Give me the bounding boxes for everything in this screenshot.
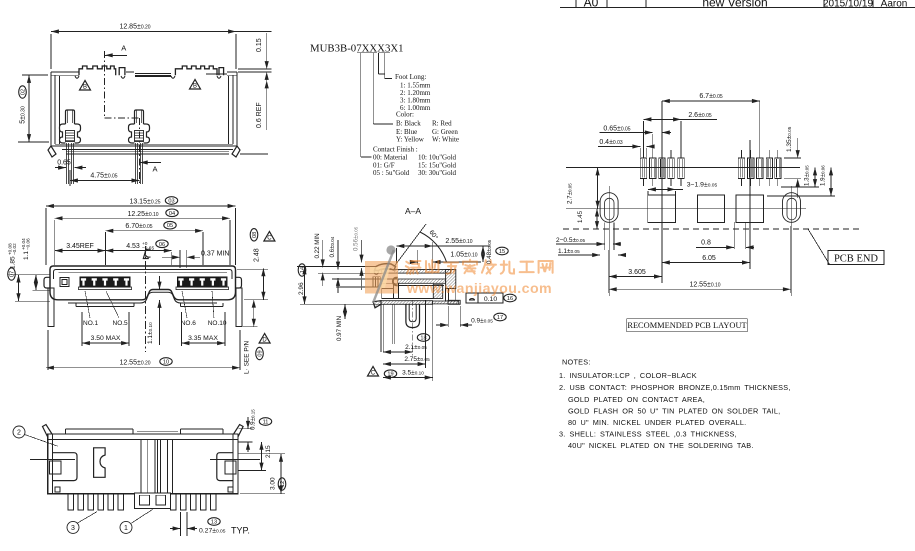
svg-text:0.9±0.15: 0.9±0.15 — [250, 409, 257, 430]
svg-text:2.55±0.10: 2.55±0.10 — [445, 238, 472, 245]
front view NO. labels — [83, 291, 227, 327]
svg-text:B: B — [193, 84, 197, 90]
pcb dim 3.605 — [609, 250, 662, 293]
pcb dim 2.6 — [644, 112, 718, 158]
svg-text:07: 07 — [10, 271, 16, 277]
pcb dim 1.3 — [781, 165, 819, 187]
section A-A shell profile — [373, 264, 460, 352]
section A-A dim 2.55 — [396, 238, 490, 269]
bottom view dim 0.9±0.15 — [239, 409, 272, 452]
front view dim 3.35 MAX — [182, 312, 226, 346]
svg-text:2.6±0.05: 2.6±0.05 — [688, 112, 712, 119]
svg-text:0.56±0.05: 0.56±0.05 — [353, 226, 360, 251]
svg-text:2.96: 2.96 — [298, 282, 305, 295]
svg-text:03: 03 — [168, 199, 174, 205]
top view dim 0.6 REF right — [240, 72, 268, 154]
svg-text:04: 04 — [169, 211, 175, 217]
section A-A dim 0.9 foot — [436, 306, 506, 327]
svg-text:Color:: Color: — [396, 111, 414, 119]
svg-text:D: D — [262, 338, 267, 344]
svg-text:1.1±0.10: 1.1±0.10 — [147, 322, 154, 344]
svg-text:17: 17 — [497, 315, 503, 321]
svg-text:−0.06: −0.06 — [26, 238, 31, 250]
svg-text:A: A — [152, 165, 157, 174]
front view housing block left — [75, 303, 77, 307]
front view dim 13.15 — [46, 197, 236, 265]
svg-text:15: 15u"Gold: 15: 15u"Gold — [418, 161, 457, 169]
svg-text:A–A: A–A — [405, 206, 421, 216]
svg-text:NO.5: NO.5 — [113, 320, 129, 327]
front view shell outline — [44, 266, 242, 303]
bottom view dim 2.15 — [239, 442, 273, 471]
section A-A 60 deg arc — [395, 224, 447, 266]
section A-A dims 2.1 / 2.75 / 3.5 — [368, 300, 433, 381]
pcb dim 2.7 — [567, 168, 598, 209]
svg-text:12.85±0.20: 12.85±0.20 — [119, 24, 150, 31]
pcb dim 6.05 — [662, 255, 750, 263]
top view mounting peg left — [66, 110, 75, 124]
front view dim 6.70 — [105, 221, 203, 265]
svg-text:1.3±0.05: 1.3±0.05 — [804, 165, 811, 186]
top view dim 0.15 right — [238, 33, 272, 88]
pcb dim 12.55 — [609, 226, 791, 293]
section A-A dim 0.48 — [483, 239, 508, 264]
section A-A dim 1.05 — [410, 250, 481, 265]
svg-text:0.4±0.03: 0.4±0.03 — [599, 139, 623, 146]
svg-text:14: 14 — [300, 267, 306, 273]
svg-text:2. USB CONTACT: PHOSPHOR BRONZ: 2. USB CONTACT: PHOSPHOR BRONZE,0.15mm T… — [559, 383, 791, 392]
svg-text:1: 1 — [124, 525, 128, 532]
svg-text:B: B — [83, 85, 87, 91]
front view centerline — [144, 246, 146, 352]
svg-text:12.55±0.20: 12.55±0.20 — [119, 360, 150, 367]
svg-text:0.65: 0.65 — [57, 160, 71, 167]
pcb dim 2-0.5 — [556, 237, 621, 244]
svg-text:A0: A0 — [584, 0, 599, 10]
svg-text:3−1.9±0.05: 3−1.9±0.05 — [687, 182, 718, 189]
svg-text:−0.02: −0.02 — [12, 243, 17, 255]
svg-text:6.70±0.05: 6.70±0.05 — [125, 223, 152, 230]
svg-text:R: Red: R: Red — [432, 120, 452, 128]
svg-text:2: 2 — [17, 430, 21, 437]
svg-text:09: 09 — [258, 350, 264, 356]
svg-text:3.5±0.10: 3.5±0.10 — [402, 370, 424, 377]
front view legs — [48, 288, 242, 327]
top view mounting peg right — [135, 110, 144, 124]
front view left contact block — [80, 277, 130, 287]
svg-text:0.15: 0.15 — [256, 38, 263, 52]
svg-text:1.05±0.10: 1.05±0.10 — [450, 252, 477, 259]
svg-text:15: 15 — [499, 249, 505, 255]
section A-A left dims — [297, 226, 397, 341]
balloon 1 — [120, 509, 153, 533]
svg-text:2.48: 2.48 — [254, 248, 261, 262]
top view triangle B left — [80, 81, 91, 91]
svg-text:Foot Long:: Foot Long: — [395, 73, 426, 81]
pcb dim 6.7 — [662, 93, 760, 158]
top view dim 5±0.30 left — [18, 75, 49, 142]
svg-text:A: A — [121, 44, 126, 53]
RECOMMENDED PCB LAYOUT label — [627, 319, 748, 332]
svg-text:2015/10/19: 2015/10/19 — [823, 0, 873, 9]
watermark logo square — [365, 245, 398, 303]
front view dim 3.45REF — [55, 243, 106, 251]
top view dim 4.75 — [70, 170, 139, 186]
svg-text:Aaron: Aaron — [881, 0, 908, 9]
svg-text:2.75±0.05: 2.75±0.05 — [404, 356, 430, 363]
pcb dim 1.45 — [576, 209, 626, 229]
svg-text:01: G/F: 01: G/F — [373, 161, 395, 169]
svg-text:GOLD PLATED ON CONTACT AREA,: GOLD PLATED ON CONTACT AREA, — [568, 395, 705, 404]
svg-text:2.7±0.05: 2.7±0.05 — [567, 183, 574, 204]
svg-text:10: 10 — [163, 360, 169, 366]
svg-text:10: 10u"Gold: 10: 10u"Gold — [418, 153, 457, 161]
svg-text:2.1±0.05: 2.1±0.05 — [405, 344, 427, 351]
svg-text:0.27±0.05: 0.27±0.05 — [199, 528, 226, 535]
svg-text:3: 3 — [71, 525, 75, 532]
svg-text:05 : 5u"Gold: 05 : 5u"Gold — [373, 169, 410, 177]
svg-text:Y: Yellow: Y: Yellow — [396, 135, 425, 143]
svg-text:5±0.30: 5±0.30 — [20, 106, 27, 124]
pcb layout pads — [566, 150, 800, 186]
svg-text:PCB END: PCB END — [834, 254, 878, 265]
svg-text:08: 08 — [252, 232, 258, 238]
svg-text:GOLD FLASH OR 50 U" TIN PLATED: GOLD FLASH OR 50 U" TIN PLATED ON SOLDER… — [568, 407, 780, 416]
front view dim 0.37 MIN — [162, 250, 229, 268]
front view dim 12.25 — [55, 209, 230, 265]
svg-text:W: White: W: White — [432, 135, 459, 143]
svg-text:1. INSULATOR:LCP , COLOR−BLACK: 1. INSULATOR:LCP , COLOR−BLACK — [559, 371, 697, 380]
svg-text:1.1±0.05: 1.1±0.05 — [558, 248, 580, 255]
part number MUB3B-07XXX3X1 legend — [310, 43, 459, 178]
svg-text:13: 13 — [211, 520, 217, 526]
svg-text:4.75±0.05: 4.75±0.05 — [90, 173, 117, 180]
front view right contact block — [178, 277, 228, 287]
svg-text:12.25±0.10: 12.25±0.10 — [127, 211, 158, 218]
pcb dim 0.65 — [600, 126, 671, 158]
svg-text:40U" NICKEL PLATED ON THE SOLD: 40U" NICKEL PLATED ON THE SOLDERING TAB. — [568, 441, 754, 450]
svg-text:13.15±0.25: 13.15±0.25 — [129, 199, 160, 206]
pcb dim 0.8 — [696, 222, 754, 249]
pcb dim 1.9 — [767, 165, 835, 196]
revision table row — [560, 0, 915, 10]
svg-text:Contact Finish :: Contact Finish : — [373, 145, 418, 153]
front view housing block right — [180, 303, 182, 307]
pcb layout ovals — [600, 186, 800, 296]
pcb dim 0.4 — [598, 139, 654, 157]
top view: dimension 12.85 — [51, 24, 272, 70]
svg-text:−0.65: −0.65 — [142, 246, 154, 252]
svg-text:NO.10: NO.10 — [208, 320, 227, 327]
svg-text:3.45REF: 3.45REF — [66, 243, 94, 250]
svg-text:0.9±0.05: 0.9±0.05 — [471, 318, 493, 325]
svg-text:0.22 MIN: 0.22 MIN — [314, 233, 321, 258]
svg-text:2.15: 2.15 — [265, 445, 272, 458]
PCB END label — [808, 229, 884, 265]
top view triangle B right — [190, 80, 201, 90]
pcb dim 1.35 — [784, 126, 801, 198]
svg-text:C: C — [371, 371, 376, 377]
front view right dims 2.48 / L — [237, 229, 275, 374]
balloon 2 — [13, 426, 58, 446]
svg-text:L· SEE P/N: L· SEE P/N — [244, 340, 251, 374]
svg-text:1.1: 1.1 — [23, 251, 30, 260]
svg-text:RECOMMENDED PCB LAYOUT: RECOMMENDED PCB LAYOUT — [627, 321, 746, 330]
svg-text:0.97 MIN: 0.97 MIN — [336, 316, 343, 341]
svg-text:0.10: 0.10 — [484, 296, 497, 303]
balloon 3 — [67, 512, 97, 534]
svg-text:80 U" MIN. NICKEL UNDER PLATED: 80 U" MIN. NICKEL UNDER PLATED OVERALL. — [568, 418, 746, 427]
svg-text:6.05: 6.05 — [702, 255, 716, 262]
svg-text:19: 19 — [387, 372, 393, 378]
svg-text:4.53: 4.53 — [126, 243, 140, 250]
svg-text:0.8: 0.8 — [701, 239, 711, 246]
svg-text:NO.1: NO.1 — [83, 320, 99, 327]
svg-text:1.35±0.05: 1.35±0.05 — [786, 126, 793, 152]
front view dim 12.55 — [46, 330, 240, 370]
svg-text:2−0.5±0.05: 2−0.5±0.05 — [556, 237, 586, 244]
svg-text:05: 05 — [167, 223, 173, 229]
svg-text:NOTES:: NOTES: — [562, 358, 591, 367]
svg-text:www.wanjiayou.com: www.wanjiayou.com — [406, 281, 552, 297]
svg-text:B: Black: B: Black — [396, 120, 421, 128]
pcb layout squares — [566, 101, 806, 283]
svg-text:0.37 MIN: 0.37 MIN — [201, 250, 229, 257]
top view dim 0.65 — [55, 160, 86, 168]
svg-text:3.50 MAX: 3.50 MAX — [91, 335, 121, 342]
svg-text:3.00: 3.00 — [270, 477, 277, 490]
svg-text:0.65±0.05: 0.65±0.05 — [603, 126, 630, 133]
svg-text:11: 11 — [263, 420, 269, 426]
front view dim 1.1±0.10 — [147, 271, 160, 345]
svg-text:6.7±0.05: 6.7±0.05 — [699, 93, 723, 100]
section line A-A — [105, 44, 162, 185]
bottom view body — [30, 425, 260, 494]
svg-text:0.6 REF: 0.6 REF — [256, 102, 263, 128]
svg-text:0.6±0.04: 0.6±0.04 — [329, 236, 336, 257]
section A-A flatness callout — [466, 293, 516, 303]
svg-text:12.55±0.10: 12.55±0.10 — [689, 281, 720, 288]
svg-text:18: 18 — [420, 336, 426, 342]
watermark text — [406, 260, 553, 297]
svg-text:06: 06 — [159, 242, 165, 248]
svg-text:3. SHELL: STAINLESS STEEL ,0.3: 3. SHELL: STAINLESS STEEL ,0.3 THICKNESS… — [559, 430, 737, 439]
svg-text:1.9±0.06: 1.9±0.06 — [820, 165, 827, 186]
front view dim 4.53 — [105, 240, 171, 265]
pcb dim 1.1 — [558, 248, 626, 255]
front view left dims 1.85 / 1.1 — [7, 238, 50, 301]
svg-text:TYP.: TYP. — [231, 526, 250, 536]
notes text block — [559, 358, 791, 451]
svg-text:1.85: 1.85 — [10, 256, 17, 269]
svg-text:NO.6: NO.6 — [181, 320, 197, 327]
svg-text:00: Material: 00: Material — [373, 153, 407, 161]
svg-text:3.605: 3.605 — [628, 269, 646, 276]
bottom view dim 0.27 TYP — [170, 512, 250, 536]
pcb dashed board edge — [563, 228, 862, 230]
svg-text:02: 02 — [21, 89, 27, 95]
front view dim 3.50 MAX — [82, 312, 129, 346]
svg-text:30: 30u"Gold: 30: 30u"Gold — [418, 169, 457, 177]
svg-text:C: C — [267, 236, 272, 242]
svg-text:3.35 MAX: 3.35 MAX — [188, 335, 218, 342]
svg-text:new Version: new Version — [702, 0, 767, 10]
top view shell body — [48, 66, 240, 157]
svg-text:12: 12 — [280, 481, 286, 487]
svg-text:1.45: 1.45 — [577, 210, 584, 223]
bottom view dim 3.00 — [239, 454, 287, 494]
bottom view teeth row — [53, 487, 238, 510]
pcb dim 3-1.9 — [648, 182, 718, 196]
